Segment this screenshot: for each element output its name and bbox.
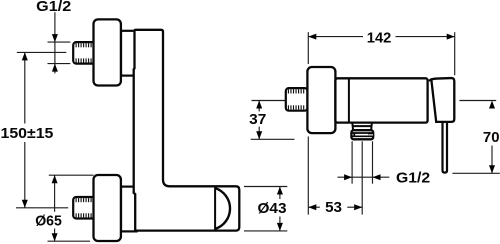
- component: outlet nut: [351, 130, 373, 139]
- wire: Ø43 extension line bottom: [244, 230, 287, 232]
- node: 53 arrow left-pointing: [308, 204, 316, 210]
- svg-text:Ø43: Ø43: [258, 200, 287, 217]
- node: 53 arrow right-pointing: [354, 204, 362, 210]
- wire: inlet centerline left segment: [252, 100, 287, 102]
- component: lever rod: [443, 122, 448, 173]
- wire: G1/2 leader line: [54, 12, 56, 73]
- component: mixer body (side view): [335, 78, 427, 122]
- node: Ø43 arrow down: [277, 223, 283, 231]
- wire: 37 extension line bottom: [251, 138, 295, 140]
- svg-text:Ø65: Ø65: [35, 213, 62, 230]
- wire: outlet extension line right: [372, 141, 374, 183]
- wire: Ø43 dimension line: [279, 187, 281, 200]
- wire: 70 extension line top: [459, 100, 496, 102]
- node: body joint line: [348, 79, 350, 121]
- wire: 53 extension line left: [307, 137, 309, 215]
- node: spout cap bulge arc: [215, 188, 230, 229]
- node: 70 arrow down: [489, 165, 495, 173]
- node: 142 arrow left: [308, 34, 316, 40]
- svg-text:53: 53: [325, 199, 342, 216]
- component: side view escutcheon: [307, 67, 335, 133]
- wire: 70 extension line bottom: [452, 172, 499, 174]
- wire: 142 dimension line: [308, 36, 363, 38]
- wire: 53 dimension line: [308, 206, 320, 208]
- wire: 37 dimension line: [258, 101, 260, 112]
- svg-text:142: 142: [367, 29, 392, 46]
- svg-text:G1/2: G1/2: [396, 170, 430, 187]
- node: G1/2 arrow down: [52, 34, 58, 42]
- wire: Ø65 extension line bottom: [48, 240, 91, 242]
- component: upper wall thread nipple: [73, 42, 97, 64]
- component: upper escutcheon: [94, 19, 121, 85]
- wire: upper thread extension line bottom: [48, 63, 71, 65]
- wire: outlet extension line left: [351, 141, 353, 183]
- component: lower escutcheon: [94, 175, 121, 241]
- wire: 142 extension line right: [454, 32, 456, 75]
- component: mixer body L-shape (front view): [134, 30, 240, 231]
- node: Ø65 arrow down: [52, 233, 58, 241]
- node: 70 arrow up: [489, 101, 495, 109]
- component: lower connector block: [121, 187, 137, 232]
- wire: outlet centerline extension: [361, 141, 363, 214]
- node: Ø65 arrow up: [52, 175, 58, 183]
- wire: lower connection centerline: [16, 207, 68, 209]
- wire: upper connection centerline: [17, 51, 67, 53]
- component: lever handle base: [431, 78, 454, 122]
- wire: G1/2 outlet dimension line: [338, 176, 390, 178]
- wire: 150 dimension line: [24, 52, 26, 123]
- node: outlet nut inner lines: [352, 132, 373, 134]
- node: 150 arrow down: [22, 200, 28, 208]
- svg-text:G1/2: G1/2: [36, 0, 71, 15]
- wire: Ø43 extension line top: [244, 186, 287, 188]
- node: spout cap joint line: [214, 187, 216, 230]
- node: 37 arrow down: [256, 131, 262, 139]
- wire: Ø65 extension line top: [49, 174, 94, 176]
- node: G1/2 outlet arrow right-pointing: [344, 174, 352, 180]
- component: outlet collar: [352, 123, 372, 131]
- node: 37 arrow up: [256, 101, 262, 109]
- wire: 70 dimension line: [491, 101, 493, 128]
- wire: 142 extension line left: [307, 32, 309, 64]
- node: outlet collar inner line: [353, 125, 372, 127]
- svg-text:70: 70: [483, 129, 500, 146]
- component: side view thread nipple: [286, 88, 308, 111]
- wire: upper thread extension line top: [48, 41, 71, 43]
- component: lower wall thread nipple: [73, 197, 97, 219]
- svg-text:37: 37: [249, 111, 266, 128]
- node: G1/2 arrow up: [52, 64, 58, 72]
- node: 150 arrow up: [22, 52, 28, 60]
- node: lever base left flap: [429, 79, 432, 80]
- wire: Ø65 dimension line: [54, 175, 56, 212]
- node: Ø43 arrow up: [277, 187, 283, 195]
- node: G1/2 outlet arrow left-pointing: [373, 174, 381, 180]
- svg-text:150±15: 150±15: [1, 125, 54, 142]
- component: upper connector block: [121, 31, 137, 76]
- node: 142 arrow right: [447, 34, 455, 40]
